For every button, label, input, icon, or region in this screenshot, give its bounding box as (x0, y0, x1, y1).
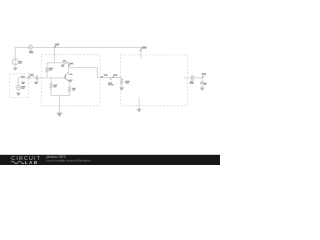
resistor R5 on box2 left edge (121, 78, 123, 79)
wire emitter to R4 (69, 81, 71, 86)
capacitor C1 plates (36, 76, 37, 81)
wire collector node to stage2 (69, 68, 122, 78)
transistor Q1 emitter diagonal (65, 78, 69, 81)
wire top VCC rail (15, 46, 141, 48)
resistor R1 (46, 67, 48, 72)
resistor R3 label below (61, 65, 64, 67)
wire V1 to top rail (14, 47, 16, 58)
wire R3 to collector corner (68, 63, 70, 73)
resistor R4 (68, 86, 70, 91)
ground (V1) (13, 68, 18, 71)
probe stub on mid wire (110, 78, 112, 80)
net flag on VCC drop (55, 46, 57, 47)
resistor R3 (62, 62, 68, 64)
net flag B on mid wire (113, 76, 114, 77)
capacitor C2 label (190, 81, 194, 84)
voltage source V1 (12, 59, 18, 65)
wire VCC drop into box1 (53, 47, 55, 62)
capacitor C2 plates (192, 75, 193, 80)
resistor R2 lead bottom (50, 88, 52, 95)
svg-text:LAB: LAB (25, 160, 39, 165)
capacitor C3 label (204, 83, 207, 85)
resistor R5 label (125, 81, 130, 84)
resistor R3 label above (63, 60, 66, 61)
subcircuit box 2 (black box, dashed) (121, 55, 188, 106)
probe label (108, 82, 114, 85)
signal source V2 (16, 85, 21, 90)
transistor Q1 emitter arrow (68, 80, 70, 82)
V1 label (19, 61, 22, 64)
net flag at output node (202, 76, 203, 77)
annotation box on V2 wire (21, 76, 25, 79)
wire V2 top lead (18, 78, 28, 85)
wire V2 bottom lead (17, 90, 19, 93)
wire ground stub (59, 96, 61, 113)
capacitor C3 to ground (201, 78, 203, 82)
resistor R4 lead bottom (69, 92, 71, 96)
wire input/base (28, 77, 36, 79)
transistor Q1 collector diagonal (65, 72, 68, 75)
ground (box2 bottom) (137, 109, 142, 113)
transistor Q1 base bar (64, 75, 66, 79)
ground (R5) (119, 87, 124, 91)
net flag VCC at box2 top (140, 49, 142, 51)
net flag on collector node (69, 65, 70, 66)
transistor Q1 label (69, 74, 72, 82)
ground (V2) (16, 93, 21, 96)
wire base segment (38, 77, 66, 79)
resistor R1 lead top (46, 63, 48, 68)
CircuitLab logo wave (11, 161, 24, 164)
footer bar (0, 155, 220, 165)
capacitor C1 label (35, 82, 38, 84)
subcircuit box 3 (signal source, dashed) (10, 73, 29, 97)
ground stub inside box2 (138, 97, 140, 108)
ammeter label (29, 51, 33, 54)
subcircuit box 1 (amplifier stage, dashed) (41, 55, 100, 106)
ground (box1) (57, 113, 63, 117)
resistor R2 lead top (50, 78, 52, 83)
resistor R1 label (49, 68, 53, 71)
net flag A on mid wire (101, 76, 103, 77)
wire V1 to ground (14, 65, 16, 68)
resistor R2 (50, 83, 52, 88)
resistor R1 lead bottom (46, 72, 48, 78)
svg-text:http://circuitlab.com/c/z7dfkr: http://circuitlab.com/c/z7dfkryrybrh (47, 158, 91, 162)
wire bottom rail (51, 95, 70, 97)
wire VCC stub into box2 (140, 47, 142, 58)
ground (output) (200, 88, 205, 91)
ammeter AM1 (28, 45, 32, 49)
resistor R2 label (53, 85, 57, 88)
V2 labels (21, 82, 25, 89)
resistor R4 label (72, 88, 75, 91)
net flag at input wire end (28, 77, 29, 78)
wire output from box2 (183, 77, 191, 79)
wire bias node horizontal (47, 62, 62, 64)
